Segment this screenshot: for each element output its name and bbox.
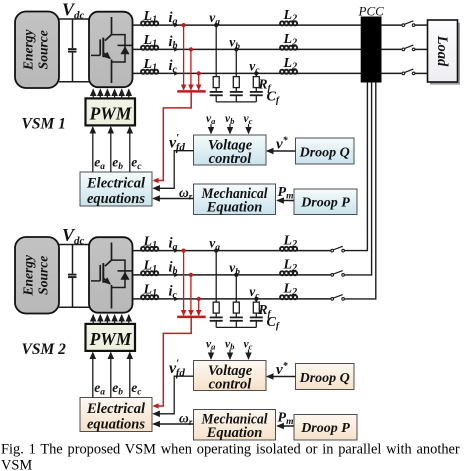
svg-text:Energy: Energy — [21, 29, 36, 72]
svg-text:Equation: Equation — [206, 425, 263, 441]
svg-text:equations: equations — [87, 417, 145, 433]
svg-text:Equation: Equation — [206, 200, 263, 216]
svg-text:Droop P: Droop P — [300, 421, 350, 436]
svg-text:PCC: PCC — [358, 4, 385, 19]
svg-text:VSM 2: VSM 2 — [22, 341, 67, 358]
svg-text:Fig. 1 The proposed VSM when o: Fig. 1 The proposed VSM when operating i… — [1, 441, 460, 457]
svg-text:Source: Source — [36, 256, 51, 295]
svg-text:Droop Q: Droop Q — [299, 146, 350, 161]
svg-text:Droop Q: Droop Q — [299, 371, 350, 386]
svg-text:Energy: Energy — [21, 254, 36, 297]
svg-text:equations: equations — [87, 191, 145, 207]
svg-text:VSM 1: VSM 1 — [22, 116, 66, 133]
svg-text:Load: Load — [434, 35, 450, 67]
svg-text:PWM: PWM — [89, 104, 133, 124]
svg-text:Source: Source — [36, 30, 51, 69]
svg-text:control: control — [209, 151, 252, 167]
svg-text:Electrical: Electrical — [86, 176, 145, 192]
svg-text:VSM: VSM — [1, 458, 32, 471]
svg-text:PWM: PWM — [89, 329, 133, 349]
svg-text:control: control — [209, 377, 252, 393]
svg-text:Electrical: Electrical — [86, 401, 145, 417]
svg-text:Droop P: Droop P — [300, 196, 350, 211]
